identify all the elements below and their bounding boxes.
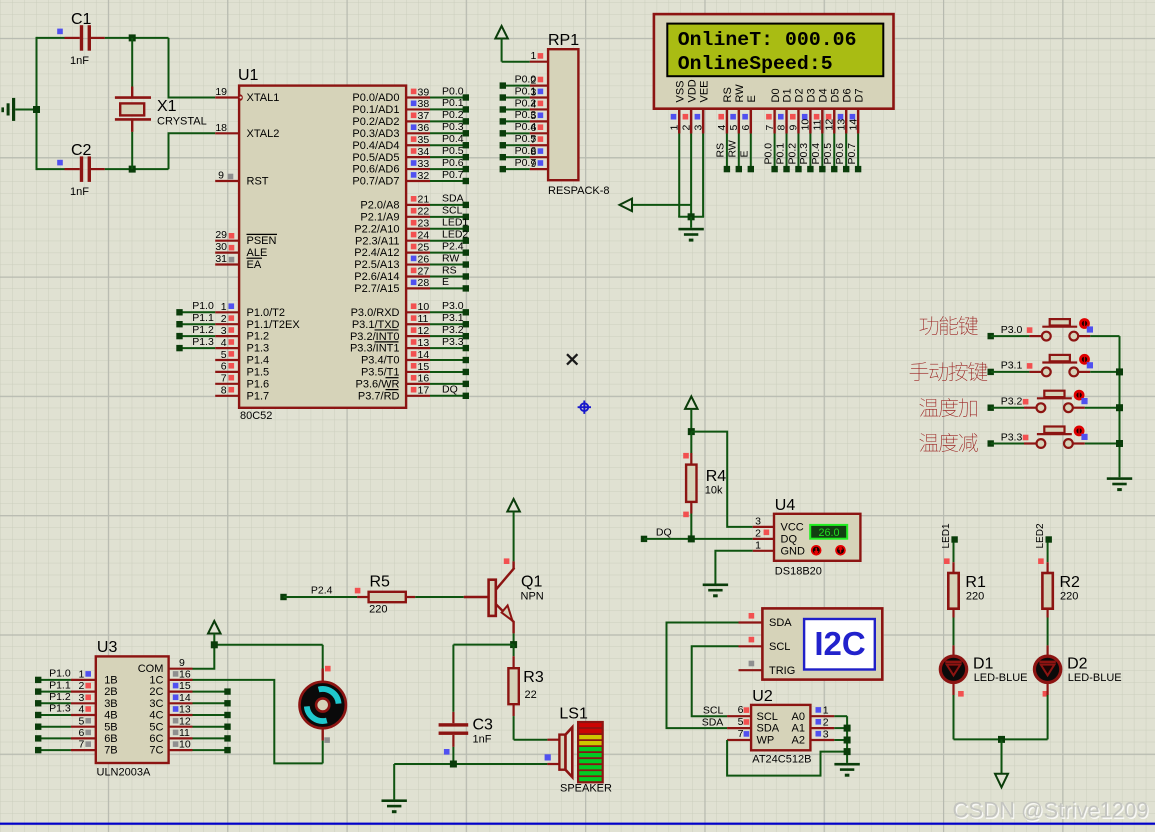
svg-text:X1: X1 (157, 98, 177, 115)
Q1 base lead (464, 596, 489, 598)
wire to XTAL2 pin 18 (169, 133, 216, 169)
svg-text:D1: D1 (973, 656, 994, 673)
svg-text:P0.7: P0.7 (442, 169, 464, 181)
svg-text:P2.6/A14: P2.6/A14 (354, 271, 399, 283)
ground U2 (834, 763, 859, 777)
U1 pins 1-8 P1.0-P1.7 (221, 301, 301, 402)
svg-text:1: 1 (79, 669, 85, 681)
svg-text:30: 30 (215, 241, 227, 253)
svg-text:P2.2/A10: P2.2/A10 (354, 223, 399, 235)
junction bus row4 (1116, 440, 1123, 447)
svg-text:3C: 3C (149, 698, 163, 710)
svg-text:10: 10 (418, 301, 430, 313)
svg-text:R3: R3 (523, 669, 544, 686)
svg-text:P1.1: P1.1 (49, 679, 71, 691)
svg-text:SDA: SDA (757, 723, 780, 735)
svg-text:RW: RW (727, 140, 739, 157)
svg-text:P0.3/AD3: P0.3/AD3 (352, 128, 399, 140)
svg-text:15: 15 (418, 361, 430, 373)
svg-text:P1.1: P1.1 (192, 312, 214, 324)
svg-text:P3.2: P3.2 (442, 324, 464, 336)
svg-text:10: 10 (179, 739, 191, 751)
svg-text:U1: U1 (238, 67, 259, 84)
wire P3.1 right (1090, 371, 1119, 373)
label 功能键 (920, 316, 978, 335)
wire DQ (641, 527, 753, 542)
U1 right pin wires to terminals (430, 94, 469, 399)
svg-text:XTAL2: XTAL2 (247, 128, 280, 140)
svg-text:80C52: 80C52 (240, 410, 272, 422)
wire crystal top (131, 38, 133, 87)
U1 pin 30 ALE (215, 241, 267, 259)
svg-text:P0.6/AD6: P0.6/AD6 (352, 164, 399, 176)
svg-text:8: 8 (221, 385, 227, 397)
wire SCL net (692, 646, 739, 716)
svg-text:LED-BLUE: LED-BLUE (1068, 672, 1122, 684)
svg-text:DQ: DQ (656, 527, 672, 539)
svg-text:8: 8 (776, 125, 788, 131)
svg-text:3: 3 (79, 692, 85, 704)
svg-text:P0.2: P0.2 (442, 109, 464, 121)
svg-text:P1.3: P1.3 (247, 343, 270, 355)
svg-text:P1.0: P1.0 (49, 668, 71, 680)
svg-text:9: 9 (179, 657, 185, 669)
wire P3.3 left (988, 431, 1029, 446)
svg-text:4C: 4C (149, 710, 163, 722)
svg-text:P2.4: P2.4 (311, 584, 333, 596)
svg-text:12: 12 (179, 715, 191, 727)
svg-text:26: 26 (418, 253, 430, 265)
svg-text:C3: C3 (473, 717, 494, 734)
svg-text:P2.7/A15: P2.7/A15 (354, 283, 399, 295)
junction left rail (33, 106, 40, 113)
svg-text:P3.6/WR: P3.6/WR (355, 378, 399, 390)
motor (300, 645, 346, 764)
svg-text:5: 5 (728, 125, 740, 131)
svg-text:31: 31 (215, 253, 227, 265)
junction R4 top (688, 428, 695, 435)
svg-text:LED1: LED1 (442, 217, 468, 229)
svg-text:LED1: LED1 (941, 523, 952, 548)
U1 pin 19 XTAL1 (215, 86, 279, 104)
svg-text:1nF: 1nF (70, 186, 89, 198)
svg-text:29: 29 (215, 229, 227, 241)
wire R1 to D1 (953, 618, 955, 646)
svg-text:11: 11 (418, 313, 429, 325)
svg-text:21: 21 (418, 194, 430, 206)
svg-text:P1.6: P1.6 (247, 378, 270, 390)
svg-text:E: E (442, 276, 449, 288)
svg-text:U2: U2 (752, 688, 773, 705)
resistor pack RP1 RESPACK-8 body (548, 32, 610, 197)
junction led rail (998, 736, 1005, 743)
svg-text:28: 28 (418, 277, 430, 289)
svg-text:D2: D2 (1067, 656, 1088, 673)
svg-text:RW: RW (442, 252, 459, 264)
svg-text:39: 39 (418, 86, 430, 98)
svg-text:32: 32 (418, 170, 430, 182)
power arrow RP1 (495, 26, 529, 62)
RP1 pins 2-9 (500, 73, 548, 172)
svg-text:VDD: VDD (686, 79, 698, 102)
svg-text:16: 16 (179, 669, 191, 681)
svg-text:SCL: SCL (703, 705, 724, 717)
svg-text:5C: 5C (149, 721, 163, 733)
svg-text:4B: 4B (104, 710, 117, 722)
svg-text:2: 2 (79, 680, 85, 692)
U3 COM pin 9 (138, 657, 193, 675)
svg-text:13: 13 (179, 704, 191, 716)
U1 right pin numbers and indicators (411, 86, 430, 396)
svg-text:AT24C512B: AT24C512B (752, 754, 811, 766)
svg-text:P0.7: P0.7 (515, 157, 537, 169)
svg-text:OnlineT: 000.06: OnlineT: 000.06 (678, 29, 857, 51)
svg-text:C1: C1 (71, 11, 92, 28)
svg-text:9: 9 (218, 170, 224, 182)
svg-text:P2.4: P2.4 (442, 240, 464, 252)
junction A2 (844, 737, 851, 744)
svg-text:10: 10 (800, 119, 812, 131)
svg-text:2B: 2B (104, 686, 117, 698)
svg-text:7: 7 (738, 728, 744, 740)
lcd display LM016L body (654, 14, 894, 109)
svg-text:7: 7 (221, 373, 227, 385)
svg-text:P0.1: P0.1 (515, 85, 537, 97)
net label LED2 (1035, 523, 1052, 548)
junction C3 bottom (450, 761, 457, 768)
svg-text:R5: R5 (370, 573, 391, 590)
svg-text:P0.2: P0.2 (515, 97, 537, 109)
power arrow R4 (685, 396, 698, 431)
U1 right pin stubs (406, 98, 430, 396)
svg-text:P1.2: P1.2 (49, 691, 71, 703)
svg-text:VEE: VEE (698, 80, 710, 102)
U1 left pin stubs (215, 98, 239, 396)
wire P3.2 left (988, 396, 1029, 411)
svg-text:P0.5: P0.5 (442, 145, 464, 157)
svg-text:D7: D7 (853, 88, 865, 102)
svg-text:CRYSTAL: CRYSTAL (157, 116, 207, 128)
svg-text:P0.6: P0.6 (442, 157, 464, 169)
svg-text:R2: R2 (1060, 574, 1081, 591)
label 手动按键 (910, 362, 988, 381)
svg-text:6B: 6B (104, 733, 117, 745)
svg-text:16: 16 (418, 373, 430, 385)
svg-text:35: 35 (418, 134, 430, 146)
resistor R3 22 (508, 645, 543, 740)
power arrow left of LCD (620, 199, 633, 212)
driver U3 ULN2003A body (96, 639, 169, 779)
svg-text:RST: RST (247, 176, 269, 188)
junction COM (211, 641, 218, 648)
svg-text:D0: D0 (770, 88, 782, 102)
svg-text:P0.5: P0.5 (515, 133, 537, 145)
wire P3.0 right (1090, 335, 1119, 337)
junction C1-crystal (129, 34, 136, 41)
svg-text:P3.0/RXD: P3.0/RXD (351, 307, 400, 319)
svg-text:5: 5 (79, 715, 85, 727)
svg-text:P1.0: P1.0 (192, 300, 214, 312)
svg-text:P0.4/AD4: P0.4/AD4 (352, 140, 399, 152)
eeprom U2 AT24C512B body (702, 688, 835, 766)
capacitor C3 1nF (439, 645, 493, 764)
resistor R1 220 (944, 543, 986, 618)
svg-text:1: 1 (668, 125, 680, 131)
svg-text:LED-BLUE: LED-BLUE (974, 672, 1028, 684)
wire U4 GND (715, 551, 752, 584)
svg-text:A0: A0 (792, 711, 805, 723)
svg-text:LS1: LS1 (559, 706, 588, 723)
svg-text:12: 12 (823, 119, 835, 131)
output arrow down (995, 739, 1008, 787)
svg-text:P0.6: P0.6 (515, 145, 537, 157)
svg-text:P2.4/A12: P2.4/A12 (354, 247, 399, 259)
svg-text:P3.0: P3.0 (1001, 324, 1023, 336)
lcd control wires RS RW E (715, 134, 754, 173)
svg-text:11: 11 (812, 119, 824, 130)
wire button ground bus (1119, 336, 1121, 477)
svg-text:P0.3: P0.3 (442, 121, 464, 133)
led D1 LED-BLUE (940, 645, 1027, 696)
button P3.1 (1029, 354, 1093, 376)
wire C2 left (37, 168, 65, 170)
button P3.2 (1024, 390, 1088, 412)
svg-text:P3.1: P3.1 (1001, 360, 1023, 372)
sheet border line (0, 823, 1155, 825)
crystal X1 (115, 87, 207, 132)
svg-text:26.0: 26.0 (818, 527, 839, 539)
svg-text:P0.3: P0.3 (515, 109, 537, 121)
svg-text:A2: A2 (792, 735, 805, 747)
svg-text:1B: 1B (104, 675, 117, 687)
svg-text:19: 19 (215, 86, 227, 98)
wire VEE (702, 134, 704, 217)
svg-text:P0.1/AD1: P0.1/AD1 (352, 104, 399, 116)
svg-text:15: 15 (179, 680, 191, 692)
svg-text:P2.1/A9: P2.1/A9 (360, 211, 399, 223)
svg-text:6C: 6C (149, 733, 163, 745)
RP1 pin 1 (530, 50, 548, 62)
junction A1 (844, 725, 851, 732)
svg-text:D5: D5 (829, 88, 841, 102)
svg-text:DS18B20: DS18B20 (775, 566, 822, 578)
speaker level bars (578, 722, 603, 782)
resistor R5 220 (280, 573, 415, 615)
svg-text:P3.0: P3.0 (442, 300, 464, 312)
svg-text:P3.4/T0: P3.4/T0 (361, 355, 400, 367)
capacitor C1 (57, 11, 105, 67)
svg-text:DQ: DQ (442, 384, 458, 396)
svg-text:9: 9 (788, 125, 800, 131)
svg-text:Q1: Q1 (521, 573, 542, 590)
svg-text:2: 2 (755, 528, 761, 540)
wire crystal bottom (131, 132, 133, 169)
power arrow Q1 (507, 499, 519, 561)
svg-text:P1.1/T2EX: P1.1/T2EX (247, 319, 301, 331)
svg-text:I2C: I2C (814, 625, 865, 662)
svg-text:3: 3 (692, 125, 704, 131)
wire R5 to base (415, 596, 464, 598)
svg-text:23: 23 (418, 218, 430, 230)
wire 1C to motor bottom (193, 680, 323, 764)
svg-text:SCL: SCL (769, 641, 790, 653)
svg-text:P3.3/INT1: P3.3/INT1 (350, 343, 400, 355)
wire Q1 emitter down (513, 633, 515, 644)
svg-text:13: 13 (835, 119, 847, 131)
svg-text:1C: 1C (149, 675, 163, 687)
resistor R4 10k (683, 432, 726, 539)
U1 pin 9 RST (218, 170, 269, 188)
label 温度加 (920, 398, 977, 417)
svg-text:SCL: SCL (442, 205, 463, 217)
junction WP (844, 748, 851, 755)
svg-text:RS: RS (715, 143, 727, 158)
svg-text:SDA: SDA (702, 717, 724, 729)
svg-text:P1.0/T2: P1.0/T2 (247, 307, 286, 319)
wire led common rail (954, 738, 1048, 740)
svg-text:P1.7: P1.7 (247, 390, 270, 402)
svg-text:25: 25 (418, 241, 430, 253)
svg-text:SCL: SCL (757, 711, 778, 723)
junction bus row3 (1116, 404, 1123, 411)
svg-text:U3: U3 (97, 639, 118, 656)
svg-text:220: 220 (1060, 591, 1078, 603)
svg-text:11: 11 (179, 727, 190, 739)
wire D1 down (952, 683, 954, 740)
svg-text:P1.3: P1.3 (49, 703, 71, 715)
U3 left pins 1-7 (35, 668, 118, 757)
U1 right net labels (442, 85, 468, 395)
svg-text:P0.6: P0.6 (834, 143, 846, 165)
junction emitter node (510, 641, 517, 648)
I2C module body (739, 608, 883, 679)
svg-text:P3.3: P3.3 (1001, 431, 1023, 443)
svg-text:3B: 3B (104, 698, 117, 710)
svg-text:RS: RS (722, 87, 734, 102)
svg-text:P0.0: P0.0 (442, 85, 464, 97)
svg-text:ALE: ALE (247, 247, 268, 259)
svg-text:P1.2: P1.2 (192, 324, 214, 336)
svg-text:P0.3: P0.3 (798, 143, 810, 165)
svg-text:12: 12 (418, 325, 430, 337)
svg-text:7: 7 (764, 125, 776, 131)
svg-text:CSDN @Strive1209: CSDN @Strive1209 (953, 798, 1149, 823)
svg-text:D1: D1 (782, 88, 794, 102)
svg-text:4: 4 (716, 125, 728, 131)
watermark (953, 798, 1150, 824)
svg-text:P0.5: P0.5 (822, 143, 834, 165)
svg-text:5: 5 (738, 716, 744, 728)
svg-text:38: 38 (418, 98, 430, 110)
svg-text:LED2: LED2 (1035, 523, 1046, 548)
svg-text:7C: 7C (149, 745, 163, 757)
svg-text:6: 6 (221, 361, 227, 373)
ground buttons (1107, 477, 1132, 491)
wire emitter node to C3 branch (453, 644, 513, 646)
svg-text:VCC: VCC (781, 521, 804, 533)
origin marker (578, 401, 591, 414)
svg-text:RESPACK-8: RESPACK-8 (548, 185, 610, 197)
svg-text:D3: D3 (806, 88, 818, 102)
U1 P1.0-P1.3 port wires (176, 300, 215, 351)
svg-text:6: 6 (79, 727, 85, 739)
svg-text:6: 6 (738, 704, 744, 716)
svg-text:2: 2 (823, 717, 829, 729)
wire WP net (727, 740, 847, 776)
speaker LS1 (545, 706, 612, 795)
svg-text:3: 3 (221, 325, 227, 337)
svg-text:7B: 7B (104, 745, 117, 757)
wire VSS-VEE bottom rail (678, 216, 704, 218)
svg-text:34: 34 (418, 146, 430, 158)
wire A0-A2 ground bus (834, 716, 847, 763)
svg-text:RP1: RP1 (548, 32, 579, 49)
lcd pin stubs and numbers (668, 109, 859, 134)
button P3.0 (1029, 318, 1093, 340)
svg-text:R1: R1 (965, 574, 986, 591)
led D2 LED-BLUE (1034, 645, 1121, 696)
svg-text:VSS: VSS (674, 80, 686, 102)
wire D2 down (1046, 683, 1048, 740)
svg-text:1nF: 1nF (473, 734, 492, 746)
wire to XTAL1 pin 19 (169, 38, 216, 98)
svg-text:SDA: SDA (442, 193, 464, 205)
svg-text:3: 3 (823, 728, 829, 740)
svg-text:14: 14 (179, 692, 191, 704)
svg-text:10k: 10k (705, 485, 723, 497)
svg-text:D6: D6 (841, 88, 853, 102)
svg-text:22: 22 (418, 206, 430, 218)
svg-text:220: 220 (966, 591, 984, 603)
svg-text:P0.7: P0.7 (846, 143, 858, 165)
svg-text:14: 14 (847, 119, 859, 131)
svg-text:P0.1: P0.1 (774, 143, 786, 165)
svg-text:P3.2/INT0: P3.2/INT0 (350, 331, 400, 343)
temperature sensor U4 DS18B20 (753, 497, 861, 578)
wire C1 left (37, 37, 65, 39)
svg-text:P3.1: P3.1 (442, 312, 464, 324)
svg-text:4: 4 (79, 704, 85, 716)
wire SDA net (667, 623, 739, 729)
svg-text:NPN: NPN (521, 591, 544, 603)
svg-text:P0.7/AD7: P0.7/AD7 (352, 176, 399, 188)
svg-text:A1: A1 (792, 723, 805, 735)
svg-text:P0.4: P0.4 (515, 121, 537, 133)
svg-text:SPEAKER: SPEAKER (560, 783, 612, 795)
svg-text:E: E (739, 150, 751, 157)
wire P3.2 right (1085, 407, 1120, 409)
svg-text:COM: COM (138, 663, 164, 675)
svg-text:4: 4 (221, 337, 227, 349)
wire P3.1 left (988, 360, 1033, 375)
U3 right pins 1C-7C (149, 669, 192, 757)
svg-text:33: 33 (418, 158, 430, 170)
svg-text:1: 1 (531, 50, 537, 62)
U1 pin 31 EA (215, 253, 262, 271)
svg-text:P2.3/A11: P2.3/A11 (355, 235, 399, 247)
wire rail to ground (393, 764, 395, 799)
svg-text:P1.4: P1.4 (247, 355, 270, 367)
svg-text:P0.4: P0.4 (810, 143, 822, 165)
svg-text:P1.5: P1.5 (247, 367, 270, 379)
svg-text:OnlineSpeed:5: OnlineSpeed:5 (678, 53, 833, 75)
wire VSS (678, 134, 680, 217)
svg-text:EA: EA (247, 259, 262, 271)
svg-text:P3.1/TXD: P3.1/TXD (352, 319, 400, 331)
lcd pin names (674, 79, 865, 102)
svg-text:P2.5/A13: P2.5/A13 (354, 259, 399, 271)
wire C2 right (105, 168, 169, 170)
